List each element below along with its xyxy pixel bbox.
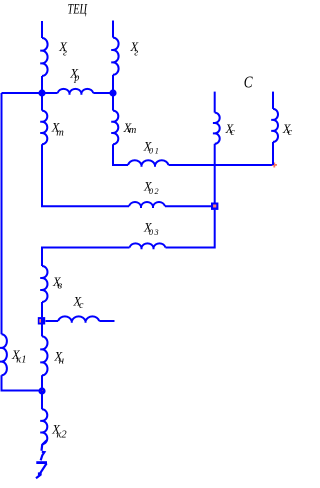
wire branch 2 to bus — [112, 75, 114, 93]
reactor X02 — [129, 202, 165, 208]
wire bus right segment — [93, 92, 113, 94]
svg-text:р: р — [73, 73, 79, 84]
wire far-left vertical upper — [1, 93, 3, 334]
label Xк2 — [51, 423, 67, 441]
svg-text:с: с — [288, 127, 293, 138]
wire bus left segment — [2, 92, 58, 94]
svg-text:г: г — [63, 48, 67, 59]
reactor Xс (MV winding stub) — [58, 316, 99, 322]
wire system branch A through X01 to node — [214, 144, 216, 203]
node: bottom junction with red center — [38, 387, 45, 394]
reactor Xр (bus reactor) — [58, 89, 94, 95]
svg-text:к1: к1 — [16, 355, 26, 366]
node: bus junction 2 — [109, 89, 116, 96]
svg-text:в: в — [57, 279, 62, 291]
svg-text:г: г — [134, 48, 138, 59]
reactor Xн (LV winding) — [40, 336, 47, 375]
label Xс (system A) — [225, 122, 236, 138]
svg-text:0: 0 — [149, 147, 153, 156]
reactor Xг1 (generator 1) — [40, 38, 47, 76]
wire Xв to middle node — [41, 302, 43, 317]
wire far-left vertical lower and bottom run — [2, 375, 43, 390]
label Xк1 — [11, 348, 26, 366]
label Xн — [54, 349, 65, 366]
svg-text:ТЕЦ: ТЕЦ — [68, 2, 88, 18]
short-circuit arrow (fault bolt) — [36, 440, 47, 478]
label X02 — [143, 180, 159, 197]
wire X01 right segment — [169, 164, 274, 166]
label Xс (system B) — [282, 122, 293, 138]
red corner marker — [272, 163, 277, 168]
node: bus junction 1 — [38, 89, 45, 96]
label Xг1 — [58, 40, 68, 59]
reactor Xс (system A) — [213, 113, 220, 144]
reactor Xг2 (generator 2) — [111, 38, 118, 75]
label Xр — [69, 67, 79, 84]
label Xт2 — [123, 121, 137, 136]
wire branch 1 to bus — [41, 76, 43, 93]
wire Xс stub left — [46, 320, 59, 322]
wire X02 to center node — [165, 205, 212, 207]
reactor X01 — [128, 160, 169, 167]
svg-text:к2: к2 — [57, 430, 68, 441]
wire node down to X03 line — [166, 210, 215, 248]
svg-text:0: 0 — [149, 228, 153, 237]
wire branch 1 down to X02 line — [42, 144, 129, 206]
reactor Xк2 (cable 2) — [40, 409, 47, 444]
reactor Xт1 (transformer 1) — [40, 111, 47, 145]
wire Xс stub right end — [99, 320, 114, 322]
svg-text:с: с — [230, 127, 235, 138]
svg-text:с: с — [79, 300, 84, 311]
wire generator branch 2 top stub — [112, 21, 114, 38]
label Xт1 — [51, 120, 64, 138]
node: center square node — [211, 203, 218, 210]
wire system branch A top stub — [214, 92, 216, 113]
label X03 — [143, 221, 159, 237]
wire system branch B lower — [272, 142, 274, 165]
reactor Xк1 (cable 1) — [0, 334, 7, 375]
wire Xн to bottom junction — [41, 375, 43, 391]
label Xс (MV stub) — [73, 295, 85, 312]
label Xг2 — [130, 40, 140, 59]
svg-text:т: т — [56, 128, 64, 139]
svg-text:т: т — [129, 125, 137, 136]
reactor X03 — [130, 243, 166, 249]
svg-text:2: 2 — [155, 187, 159, 196]
wire junction 1 to Xт1 — [41, 93, 43, 111]
wire junction 2 to Xт2 — [112, 93, 114, 111]
svg-text:3: 3 — [154, 228, 159, 237]
wire system branch B top stub — [272, 92, 274, 109]
reactor Xв (HV winding) — [40, 266, 47, 302]
wire branch 2 down to X01 line — [113, 144, 128, 165]
svg-text:н: н — [59, 355, 65, 367]
svg-text:1: 1 — [155, 147, 159, 156]
svg-text:0: 0 — [149, 187, 153, 196]
wire bottom junction to Xк2 — [41, 391, 43, 409]
reactor Xт2 (transformer 2) — [111, 111, 118, 145]
wire middle node to Xн — [41, 324, 43, 336]
node: middle square node — [38, 317, 45, 324]
svg-text:C: C — [244, 73, 253, 92]
wire X03 left to Xв branch — [42, 248, 130, 267]
label X01 — [143, 139, 159, 155]
label Xв — [52, 275, 62, 292]
reactor Xс (system B) — [271, 109, 278, 142]
wire generator branch 1 top stub — [41, 21, 43, 38]
